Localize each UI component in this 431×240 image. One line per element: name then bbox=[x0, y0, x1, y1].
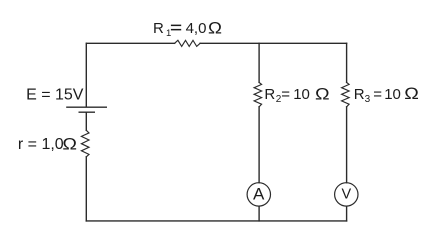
wire R3 branch upper bbox=[346, 43, 348, 82]
wire r to bottom bbox=[85, 157, 87, 221]
wire ammeter to bottom bbox=[258, 206, 260, 221]
svg-text:V: V bbox=[341, 187, 351, 203]
label R1 equals sign bbox=[171, 25, 181, 27]
wire top-right segment bbox=[200, 42, 347, 44]
wire left vertical upper bbox=[85, 43, 87, 106]
svg-text:Ω: Ω bbox=[208, 18, 222, 37]
svg-text:R3=10: R3=10 bbox=[354, 86, 401, 105]
svg-text:Ω: Ω bbox=[62, 134, 77, 153]
svg-text:r = 1,0: r = 1,0 bbox=[18, 136, 64, 153]
wire R2 to ammeter bbox=[258, 107, 260, 183]
svg-text:A: A bbox=[253, 184, 265, 203]
wire bottom bbox=[86, 220, 346, 222]
wire R3 to voltmeter bbox=[346, 107, 348, 183]
svg-text:E = 15V: E = 15V bbox=[26, 86, 84, 103]
wire voltmeter to bottom bbox=[346, 206, 348, 221]
svg-text:R2=10: R2=10 bbox=[264, 86, 309, 105]
resistor r bbox=[81, 130, 89, 157]
wire R2 branch upper bbox=[258, 43, 260, 82]
resistor R2 bbox=[254, 82, 262, 106]
battery E short plate bbox=[79, 111, 94, 113]
resistor R3 bbox=[342, 82, 350, 106]
wire top-left segment bbox=[87, 42, 175, 44]
wire battery to r bbox=[85, 113, 87, 130]
voltmeter V circle bbox=[335, 183, 358, 206]
ammeter A circle bbox=[247, 183, 270, 206]
resistor R1 bbox=[175, 40, 201, 46]
svg-text:Ω: Ω bbox=[315, 84, 330, 103]
battery E long plate bbox=[67, 106, 106, 108]
svg-text:Ω: Ω bbox=[404, 83, 419, 102]
